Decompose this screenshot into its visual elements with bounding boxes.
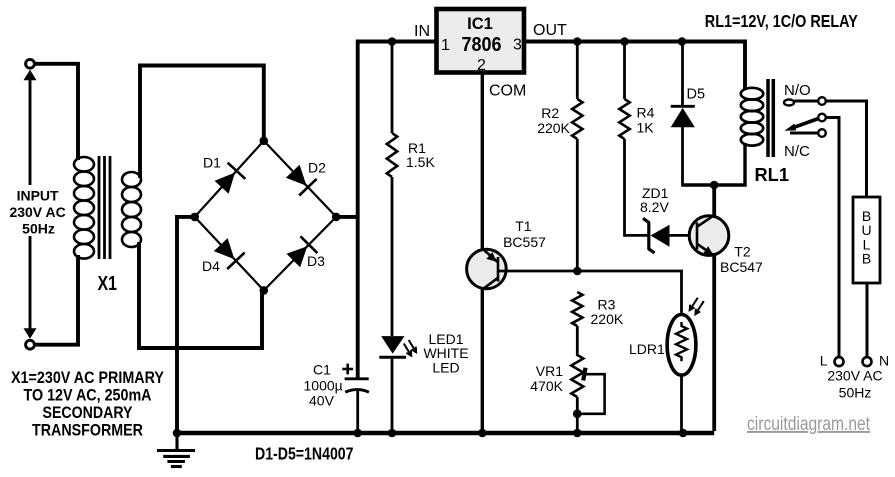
contact circle N/O	[818, 97, 826, 105]
svg-text:IC1: IC1	[467, 15, 493, 33]
svg-text:1000µ: 1000µ	[304, 378, 343, 394]
svg-text:LED: LED	[432, 360, 459, 376]
junction rail LED1	[388, 429, 397, 438]
relay core bars	[766, 79, 770, 157]
svg-text:D5: D5	[687, 86, 706, 102]
svg-text:D4: D4	[202, 258, 220, 274]
svg-text:50Hz: 50Hz	[22, 221, 55, 237]
wire OUT rail to relay	[526, 42, 745, 91]
svg-text:40V: 40V	[309, 393, 335, 409]
relay coil RL1	[741, 88, 763, 146]
svg-text:1K: 1K	[637, 120, 655, 136]
wire N/O to bulb	[826, 101, 867, 197]
junction rail T1	[478, 429, 487, 438]
junction OUT R2	[573, 37, 582, 46]
svg-text:D2: D2	[308, 160, 326, 176]
wire secondary bottom to bridge bottom	[139, 242, 262, 348]
svg-text:L: L	[820, 353, 828, 369]
svg-text:LDR1: LDR1	[629, 341, 665, 357]
svg-text:D1: D1	[203, 155, 221, 171]
input voltage arrow line upper	[29, 79, 32, 185]
junction bridge right	[332, 213, 341, 222]
wire input top to primary	[35, 64, 78, 160]
svg-text:TO 12V AC, 250mA: TO 12V AC, 250mA	[24, 387, 152, 405]
svg-text:D3: D3	[307, 253, 325, 269]
ground rail	[175, 431, 714, 435]
LED1 light arrows	[404, 340, 416, 356]
LED1	[381, 336, 404, 354]
svg-text:470K: 470K	[530, 378, 563, 394]
svg-text:3: 3	[513, 37, 522, 54]
wire bulb to N	[866, 283, 869, 356]
wire bridge right vertex to positive line	[336, 215, 358, 219]
svg-text:RL1: RL1	[755, 165, 790, 185]
wire bridge left vertex to ground rail	[177, 217, 195, 433]
svg-text:50Hz: 50Hz	[839, 385, 872, 401]
svg-text:1.5K: 1.5K	[406, 154, 435, 170]
wire COM lead	[481, 74, 484, 250]
junction OUT D5	[678, 37, 687, 46]
svg-text:220K: 220K	[537, 120, 570, 136]
svg-text:R4: R4	[637, 105, 655, 121]
transformer X1 primary coil	[74, 157, 94, 259]
svg-text:1: 1	[441, 37, 450, 54]
svg-text:R2: R2	[541, 105, 559, 121]
wire node to LDR	[577, 271, 681, 313]
diode D1	[215, 163, 246, 194]
IC1 7806 regulator box	[437, 9, 525, 73]
junction bridge left	[190, 213, 199, 222]
relay pole arm	[793, 119, 819, 128]
svg-text:X1: X1	[98, 273, 118, 295]
relay contact N/O fixed	[784, 100, 794, 106]
svg-text:N/C: N/C	[784, 143, 810, 160]
input voltage arrow line lower	[29, 236, 32, 330]
zener ZD1	[625, 234, 649, 237]
transformer X1 secondary coil	[122, 172, 141, 247]
transformer X1 core	[99, 156, 110, 259]
svg-text:B: B	[862, 251, 871, 267]
diode D2	[286, 165, 317, 196]
transistor T1 BC557	[467, 249, 507, 289]
arrowhead up	[24, 70, 37, 81]
bridge edge left-top	[195, 141, 264, 217]
BULB box	[853, 197, 880, 283]
svg-text:BC557: BC557	[503, 234, 546, 250]
wire pole to L	[826, 118, 839, 357]
svg-text:X1=230V AC PRIMARY: X1=230V AC PRIMARY	[11, 369, 164, 387]
junction VR1 bottom	[573, 409, 582, 418]
svg-text:COM: COM	[489, 83, 526, 100]
LDR1	[667, 315, 696, 376]
terminal: input bottom	[26, 340, 35, 349]
svg-text:T1: T1	[515, 218, 532, 234]
resistor R4	[623, 42, 626, 100]
bridge edge bottom-right	[264, 217, 336, 291]
potentiometer VR1	[571, 355, 583, 397]
svg-text:D1-D5=1N4007: D1-D5=1N4007	[255, 444, 354, 464]
junction OUT R4	[620, 37, 629, 46]
arrowhead down	[24, 328, 37, 339]
svg-text:7806: 7806	[462, 33, 502, 56]
junction bridge top	[260, 137, 269, 146]
junction rail ground	[173, 429, 182, 438]
junction rail C1	[353, 429, 362, 438]
bridge edge top-right	[264, 141, 336, 217]
junction R1 top	[388, 37, 397, 46]
wire relay bottom	[682, 143, 745, 185]
capacitor C1	[345, 377, 369, 380]
resistor R3	[572, 292, 582, 326]
svg-text:8.2V: 8.2V	[640, 199, 669, 215]
svg-text:BC547: BC547	[720, 259, 763, 275]
junction rail LDR	[679, 429, 688, 438]
svg-text:220K: 220K	[591, 311, 624, 327]
diode D4	[214, 238, 245, 269]
svg-text:2: 2	[477, 57, 486, 74]
svg-text:OUT: OUT	[533, 22, 567, 39]
contact circle pole	[818, 114, 826, 122]
bridge edge left-bottom	[195, 217, 264, 291]
wire secondary top to bridge top	[140, 66, 264, 179]
LDR1 light arrows	[690, 298, 704, 315]
svg-text:C1: C1	[313, 362, 331, 378]
transistor T2 BC547	[712, 185, 716, 218]
junction relay/T2	[710, 181, 719, 190]
terminal L	[835, 357, 844, 366]
terminal: input top	[26, 59, 35, 68]
svg-text:RL1=12V, 1C/O RELAY: RL1=12V, 1C/O RELAY	[705, 11, 858, 31]
svg-text:VR1: VR1	[536, 363, 563, 379]
terminal N	[863, 357, 872, 366]
T1 base wire	[499, 270, 577, 273]
junction T1 base node	[573, 267, 582, 276]
contact circle N/C	[818, 129, 826, 137]
junction rail VR1	[573, 429, 582, 438]
svg-text:TRANSFORMER: TRANSFORMER	[32, 422, 143, 440]
svg-text:230V AC: 230V AC	[827, 368, 882, 384]
svg-text:N: N	[879, 353, 889, 369]
VR1 wiper tick	[583, 368, 585, 381]
svg-text:circuitdiagram.net: circuitdiagram.net	[747, 414, 871, 435]
svg-text:N/O: N/O	[784, 82, 811, 99]
svg-text:INPUT: INPUT	[17, 188, 59, 204]
svg-text:IN: IN	[414, 23, 430, 40]
svg-text:SECONDARY: SECONDARY	[43, 404, 133, 422]
ground symbol	[157, 435, 195, 467]
junction bridge bottom	[260, 286, 269, 295]
wire input bottom to primary	[35, 255, 78, 345]
resistor R2	[576, 42, 579, 100]
resistor R1	[391, 42, 394, 134]
positive line to IC1 IN and C1	[358, 42, 436, 380]
diode D5	[681, 42, 684, 106]
svg-text:T2: T2	[734, 244, 751, 260]
VR1 wiper loop	[577, 374, 604, 414]
diode D3	[287, 236, 318, 267]
relay contact N/C line	[790, 132, 818, 135]
svg-text:230V AC: 230V AC	[9, 204, 65, 220]
